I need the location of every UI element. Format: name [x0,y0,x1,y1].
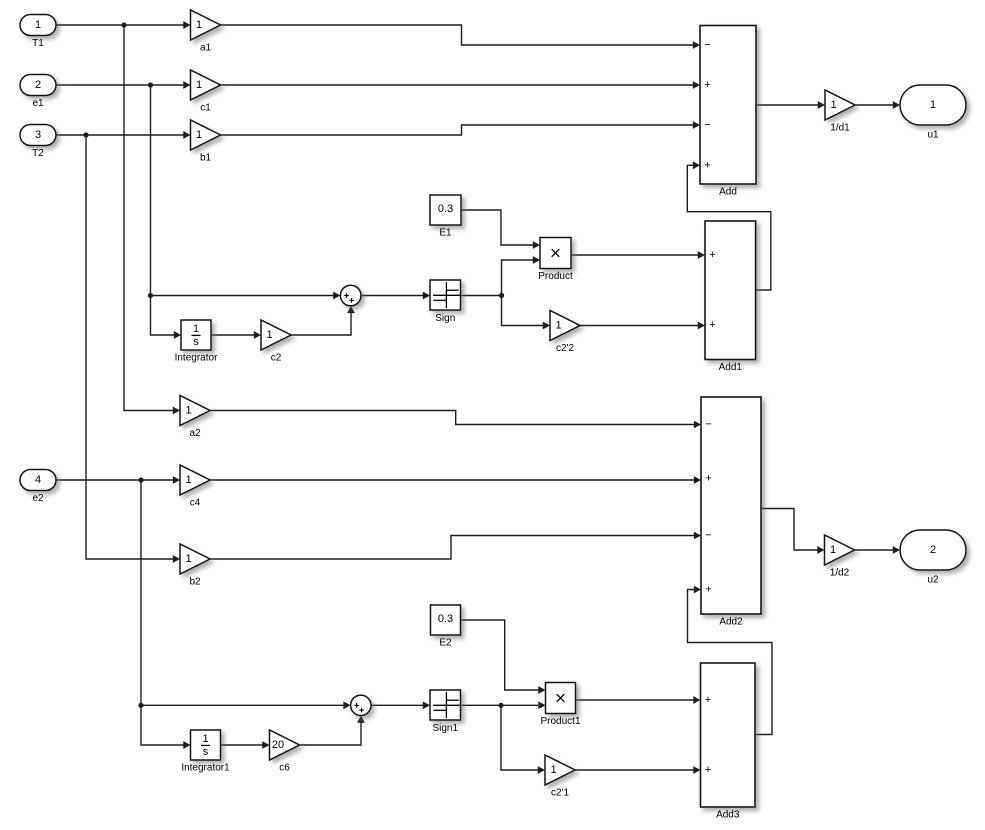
junction on e2 wire [138,477,143,482]
wire Add to gain 1/d1 [756,101,825,109]
outport 1 u1 [900,85,966,141]
svg-text:1: 1 [930,99,936,111]
wire e1 branch down to Integrator [151,85,182,339]
svg-text:c1: c1 [200,103,211,114]
svg-text:c2: c2 [271,353,282,364]
junction on e1 branch at sum row [148,293,153,298]
wire e1 to gain c1 [56,81,191,89]
svg-text:b1: b1 [200,153,212,164]
wire a2 to Add2 port 1 [210,411,701,429]
outport 2 u2 [900,530,966,586]
svg-text:1: 1 [185,405,191,417]
svg-text:1: 1 [830,99,836,111]
product block Product1 [540,683,580,728]
svg-text:3: 3 [35,129,41,141]
add block Add3 [701,663,756,821]
product block Product [538,238,573,283]
wire b1 to Add port 3 [221,121,701,135]
svg-text:1: 1 [196,19,202,31]
wire E1 to Product input 1 [461,210,540,249]
junction on e2 branch at sum row [138,703,143,708]
wire 1/d2 to outport u2 [855,546,901,554]
sum block (round, ++) [340,285,361,306]
wire Product to Add1 port 1 [571,251,705,259]
svg-text:+: + [704,159,710,171]
svg-text:Add: Add [719,187,737,198]
svg-text:a1: a1 [200,43,212,54]
svg-text:1: 1 [555,320,561,332]
svg-text:1/d2: 1/d2 [830,568,850,579]
svg-text:Add1: Add1 [719,362,743,373]
wire T2 to gain b1 [56,131,191,139]
svg-text:−: − [705,419,711,431]
junction on Sign1 output [498,703,503,708]
svg-text:Product1: Product1 [540,716,580,727]
add block Add1 [705,221,756,373]
svg-text:1: 1 [830,544,836,556]
junction on T2 wire [83,132,88,137]
wire Sign to gain c2'2 [502,296,551,330]
svg-text:+: + [705,584,711,596]
gain c2 [261,320,291,364]
svg-text:1: 1 [185,553,191,565]
sum block Sum1 (round, ++) [351,695,371,715]
wire Sign output [461,295,502,297]
svg-text:Add3: Add3 [716,810,740,821]
svg-text:c2'2: c2'2 [556,343,574,354]
gain c2'1 [545,755,575,799]
svg-text:a2: a2 [189,428,201,439]
svg-text:1: 1 [185,474,191,486]
svg-text:0.3: 0.3 [438,203,453,215]
constant E1 (0.3) [430,195,461,239]
wire e2 branch to Sum1 left input [141,701,351,709]
inport 3 T2 [20,125,56,160]
svg-text:1: 1 [550,764,556,776]
wire a1 to Add port 1 [221,25,701,49]
svg-text:Integrator: Integrator [175,353,218,364]
wire b2 to Add2 port 3 [210,532,701,559]
gain b1 [191,120,221,164]
add block Add2 [701,397,761,628]
wire Sign to Product input 2 [502,256,541,295]
wire T1 branch down to gain a2 [124,25,180,414]
svg-text:−: − [705,530,711,542]
wire Add1 feedback to Add port 4 [687,161,771,290]
inport 1 T1 [20,15,56,50]
wire Sign1 to gain c2'1 [501,705,545,774]
gain c1 [191,70,221,114]
svg-text:Sign1: Sign1 [432,723,458,734]
svg-text:1: 1 [193,323,199,335]
gain c2'2 [550,311,580,355]
svg-text:Sign: Sign [435,313,455,324]
svg-text:−: − [704,39,710,51]
svg-text:20: 20 [272,739,284,751]
wire c6 to Sum1 bottom input [300,716,365,746]
wire Product1 to Add3 port 1 [576,696,701,704]
wire Integrator1 to gain c6 [221,741,270,749]
wire c1 to Add port 2 [221,81,701,89]
svg-text:+: + [709,249,715,261]
gain 1/d2 [825,535,855,579]
wire e2 branch down to Integrator1 [141,480,191,749]
svg-text:−: − [704,119,710,131]
wire c2 to Sum bottom input [291,306,355,335]
svg-text:+: + [705,473,711,485]
svg-text:4: 4 [35,474,41,486]
gain b2 [180,544,210,588]
svg-text:2: 2 [930,544,936,556]
wire T1 to gain a1 [56,21,191,29]
svg-text:1: 1 [35,19,41,31]
svg-text:u1: u1 [927,130,939,141]
wire e2 to gain c4 [56,476,180,484]
svg-text:Product: Product [538,271,573,282]
wire c4 to Add2 port 2 [210,476,701,484]
sign block Sign1 [430,690,461,734]
gain a2 [180,396,210,440]
wire 1/d1 to outport u1 [855,101,900,109]
junction on T1 wire [121,22,126,27]
wire e1 branch to Sum left input [151,292,341,300]
junction on Sign output [499,293,504,298]
inport 2 e1 [20,75,56,110]
svg-text:E1: E1 [439,228,452,239]
svg-text:E2: E2 [439,638,452,649]
svg-text:c4: c4 [190,498,201,509]
integrator block Integrator1 [181,730,230,774]
svg-text:+: + [705,694,711,706]
gain c6 [270,730,300,774]
wire Sum to Sign [361,292,430,300]
svg-text:+: + [709,319,715,331]
svg-text:e1: e1 [32,98,44,109]
svg-text:+: + [705,764,711,776]
svg-text:s: s [193,336,199,348]
wire c2'1 to Add3 port 2 [575,766,701,774]
gain 1/d1 [825,90,855,134]
svg-text:c6: c6 [279,763,290,774]
add block Add [700,26,756,198]
svg-text:u2: u2 [927,575,939,586]
gain c4 [180,465,210,509]
svg-text:1: 1 [196,129,202,141]
svg-text:T2: T2 [32,148,44,159]
wire E2 to Product1 input 1 [461,620,546,694]
constant E2 (0.3) [431,605,461,649]
wire T2 branch down to gain b2 [86,135,180,563]
inport 4 e2 [20,470,56,505]
wire Sum1 to Sign1 [371,701,430,709]
svg-text:b2: b2 [189,577,201,588]
wire Add2 to gain 1/d2 [761,509,825,554]
wire Add3 feedback to Add2 port 4 [688,586,773,735]
svg-text:+: + [704,79,710,91]
sign block Sign [430,280,461,324]
svg-text:1: 1 [202,733,208,745]
svg-text:0.3: 0.3 [438,613,453,625]
svg-text:T1: T1 [32,38,44,49]
wire Sign1 to Product1 input 2 [461,701,546,709]
svg-text:1/d1: 1/d1 [830,123,850,134]
svg-text:s: s [203,746,209,758]
svg-text:Add2: Add2 [719,617,743,628]
svg-text:1: 1 [196,79,202,91]
wire c2'2 to Add1 port 2 [580,322,705,330]
junction on e1 wire [148,82,153,87]
wire Integrator to gain c2 [211,331,261,339]
integrator block Integrator [175,320,218,364]
svg-text:Integrator1: Integrator1 [181,763,230,774]
svg-text:2: 2 [35,79,41,91]
svg-text:c2'1: c2'1 [551,788,569,799]
svg-text:e2: e2 [32,493,44,504]
gain a1 [191,10,221,54]
svg-text:1: 1 [266,329,272,341]
